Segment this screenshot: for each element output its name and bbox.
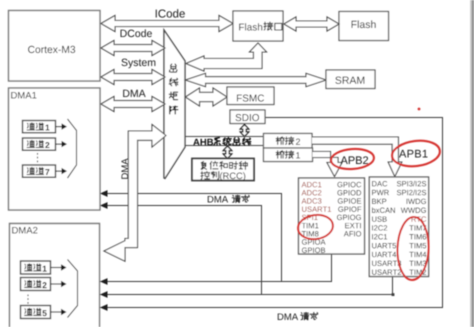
- label APB1: [399, 150, 427, 158]
- bus AHB system bus: [185, 137, 264, 146]
- wire SDIO to AHB: [240, 125, 248, 137]
- wire channel arrow: [51, 283, 62, 285]
- wire ICode bus: [101, 16, 233, 32]
- bridge 2 box: [264, 134, 313, 149]
- peripheral list APB1: [369, 177, 428, 277]
- cpu Cortex-M3: [9, 11, 101, 82]
- channel box DMA1 ch7: [23, 165, 56, 177]
- channel box DMA2 ch1: [21, 261, 51, 274]
- wire bridge1 to APB2 funnel: [313, 152, 343, 177]
- wire channel arrow: [56, 143, 63, 145]
- channel box DMA2 ch5: [21, 306, 51, 319]
- annotation red ellipse around TIM1 TIM8: [297, 213, 335, 242]
- junction dot: [392, 293, 395, 296]
- wire channel arrow: [56, 126, 63, 128]
- label APB2: [341, 156, 369, 164]
- annotation red dot: [418, 108, 421, 111]
- bridge 1 box: [264, 148, 313, 162]
- wire matrix to FSMC: [186, 88, 228, 106]
- wire System bus: [101, 70, 165, 85]
- wire matrix to SRAM: [186, 73, 327, 86]
- peripheral FSMC: [227, 87, 274, 105]
- annotation red ellipse around APB1: [391, 138, 442, 169]
- dotted link DMA1 channels: [37, 153, 39, 163]
- memory SRAM: [326, 70, 375, 89]
- wire DCode bus: [101, 41, 165, 56]
- bus matrix: [164, 30, 185, 179]
- channel box DMA1 ch2: [23, 138, 56, 150]
- wire channel arrow: [56, 170, 63, 172]
- wire channel arrow: [51, 267, 62, 269]
- controller DMA2: [10, 224, 100, 328]
- label DMA request (bottom): [278, 313, 298, 320]
- wire channel arrow: [51, 311, 62, 313]
- funnel DMA1: [68, 119, 77, 178]
- label DMA (rotated): [121, 158, 128, 178]
- annotation red ellipse around APB2: [330, 148, 374, 171]
- flash box: [339, 12, 389, 41]
- frame right border: [470, 0, 472, 327]
- annotation red ellipse around TIM7-TIM2: [396, 216, 429, 280]
- wire: APB1 DMA request to DMA1 and DMA2: [100, 206, 393, 295]
- rcc reset and clock control box: [192, 159, 254, 181]
- dotted link DMA2 channels: [27, 295, 29, 305]
- wire DMA2 master bus duct: [104, 125, 166, 262]
- channel box DMA1 ch1: [23, 121, 56, 133]
- controller DMA1: [9, 88, 101, 210]
- wire DMA bus (DMA1 master): [101, 97, 165, 112]
- wire AHB to RCC: [223, 146, 231, 159]
- peripheral list APB2: [299, 178, 365, 254]
- label DMA request (middle): [208, 196, 228, 203]
- peripheral SDIO: [230, 110, 265, 124]
- channel box DMA2 ch2: [21, 278, 51, 291]
- funnel DMA2: [68, 260, 78, 318]
- wire: APB2 DMA request to DMA1 and DMA2: [100, 194, 332, 282]
- wire matrix to flash interface (L-arrow): [186, 43, 267, 71]
- wire bridge2 to APB1 funnel: [312, 137, 402, 177]
- wire: SDIO DMA request loop to DMA2: [100, 118, 443, 308]
- flash interface box: [233, 11, 283, 41]
- wire flash interface to flash: [284, 17, 339, 31]
